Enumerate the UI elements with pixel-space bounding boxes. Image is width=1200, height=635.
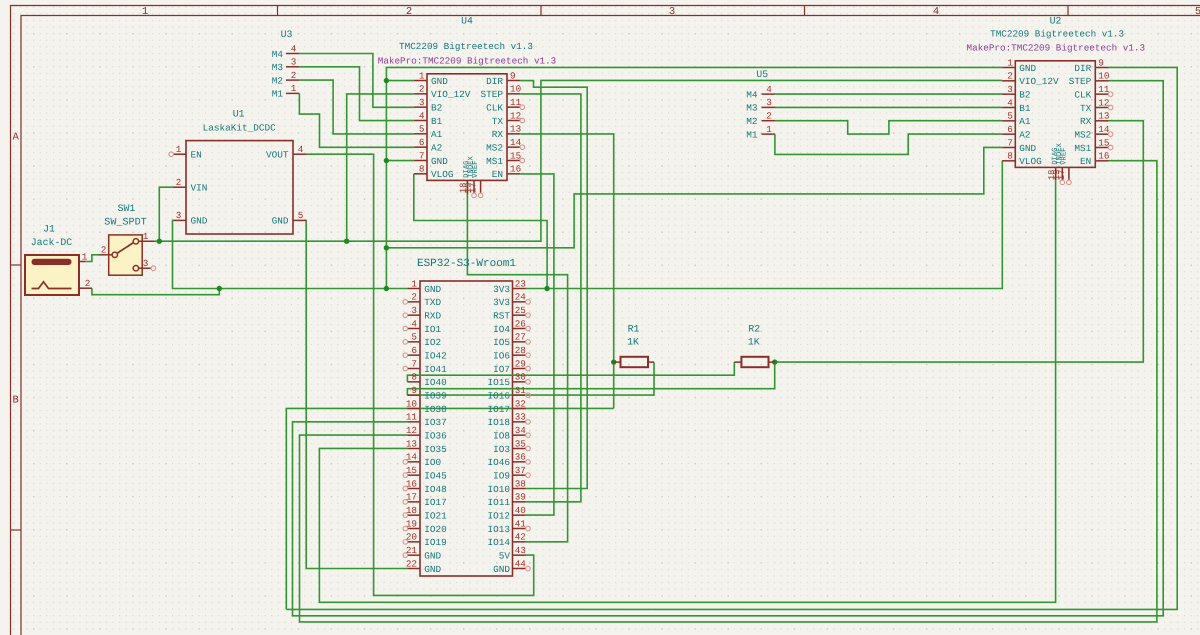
svg-text:LaskaKit_DCDC: LaskaKit_DCDC xyxy=(203,123,277,134)
ESP32 pin 8 IO40 xyxy=(407,381,420,383)
svg-text:U5: U5 xyxy=(756,69,768,80)
U2 pin 6 A2 xyxy=(1002,133,1015,135)
U2 pin 12 TX xyxy=(1095,106,1108,108)
ESP32 pin 3 open end xyxy=(403,313,408,318)
svg-text:VREF: VREF xyxy=(472,161,480,178)
svg-text:5: 5 xyxy=(298,210,304,221)
ESP32 pin 6 open end xyxy=(403,353,408,358)
svg-text:B: B xyxy=(13,395,19,407)
svg-text:U2: U2 xyxy=(1050,16,1062,27)
wire GND U1 pin5 to ESP32 pin22 xyxy=(306,220,407,568)
svg-text:MS1: MS1 xyxy=(1074,143,1091,154)
svg-text:13: 13 xyxy=(1098,111,1109,122)
regulator U1 LaskaKit_DCDC body xyxy=(186,141,293,234)
svg-text:GND: GND xyxy=(1019,143,1036,154)
svg-text:EN: EN xyxy=(1080,156,1091,167)
wire +12V rail SW1 to U2 VIO_12V xyxy=(155,80,1003,241)
wire U3 M4 to U4 B2 xyxy=(299,54,414,108)
svg-text:IO20: IO20 xyxy=(424,524,447,535)
svg-text:IO19: IO19 xyxy=(424,537,447,548)
U2 pin 19 INDEX xyxy=(1061,167,1063,180)
svg-text:M1: M1 xyxy=(272,89,284,100)
wire U4 EN to ESP32 IO12 xyxy=(520,174,554,515)
ESP32 pin 28 IO6 xyxy=(513,354,526,356)
svg-text:MakePro:TMC2209 Bigtreetech v1: MakePro:TMC2209 Bigtreetech v1.3 xyxy=(378,56,557,67)
svg-text:GND: GND xyxy=(191,216,208,227)
svg-text:M4: M4 xyxy=(746,89,758,100)
svg-text:12: 12 xyxy=(510,110,521,121)
U2 pin 17 open end xyxy=(1067,180,1072,185)
U5 pin 3 M3 xyxy=(762,106,775,108)
U4 pin 8 VLOG xyxy=(414,173,427,175)
U4 pin 6 A2 xyxy=(414,146,427,148)
U4 pin 15 open end xyxy=(520,158,525,163)
ESP32 pin 29 IO7 xyxy=(513,367,526,369)
SW1 pin 2 xyxy=(99,254,112,256)
ESP32 pin 42 IO14 xyxy=(513,541,526,543)
svg-text:CLK: CLK xyxy=(486,102,503,113)
svg-text:VIN: VIN xyxy=(191,183,208,194)
ESP32 pin 26 IO4 xyxy=(513,327,526,329)
ESP32 pin 22 GND xyxy=(407,567,420,569)
svg-text:VREF: VREF xyxy=(1061,148,1069,165)
svg-text:M2: M2 xyxy=(746,116,757,127)
U2 pin 8 VLOG xyxy=(1002,160,1015,162)
svg-text:VLOG: VLOG xyxy=(431,169,454,180)
svg-text:IO1: IO1 xyxy=(424,324,441,335)
ESP32 pin 44 open end xyxy=(526,566,531,571)
svg-text:1K: 1K xyxy=(627,337,639,348)
connector J1 Jack-DC body xyxy=(25,255,79,295)
svg-text:U4: U4 xyxy=(461,16,473,27)
svg-text:IO6: IO6 xyxy=(493,350,510,361)
svg-text:23: 23 xyxy=(515,278,526,289)
svg-text:GND: GND xyxy=(1019,63,1036,74)
svg-text:IO12: IO12 xyxy=(487,510,510,521)
svg-text:34: 34 xyxy=(515,425,527,436)
wire J1 pin1 to SW1 pin2 xyxy=(86,255,100,262)
svg-text:U1: U1 xyxy=(233,109,245,120)
svg-text:M3: M3 xyxy=(272,62,284,73)
ESP32 pin 36 IO46 xyxy=(513,461,526,463)
U4 pin 7 GND xyxy=(414,159,427,161)
U2 pin 1 GND xyxy=(1002,67,1015,69)
svg-text:IO10: IO10 xyxy=(487,484,510,495)
svg-text:GND: GND xyxy=(424,550,441,561)
ESP32 pin 18 IO21 xyxy=(407,514,420,516)
svg-text:IO42: IO42 xyxy=(424,350,447,361)
svg-text:7: 7 xyxy=(411,358,417,369)
svg-text:U3: U3 xyxy=(281,29,293,40)
svg-text:IO16: IO16 xyxy=(487,390,510,401)
U2 pin 3 B2 xyxy=(1002,93,1015,95)
svg-text:Jack-DC: Jack-DC xyxy=(31,237,73,248)
wire 5V U1 VOUT to ESP32 pin43 xyxy=(307,154,534,595)
U4 pin 14 MS2 xyxy=(507,146,520,148)
junction +12V branch to U4 xyxy=(344,239,349,244)
svg-text:R2: R2 xyxy=(748,324,760,335)
ESP32 pin 5 IO2 xyxy=(407,341,420,343)
svg-text:3: 3 xyxy=(143,258,149,269)
svg-text:42: 42 xyxy=(515,532,526,543)
wire GND vertical to top bus and U2 pin1 xyxy=(386,67,1002,288)
U4 pin 12 TX xyxy=(507,119,520,121)
U3 pin 2 M2 xyxy=(286,79,299,81)
svg-text:B2: B2 xyxy=(1019,89,1030,100)
U4 pin 10 STEP xyxy=(507,93,520,95)
svg-text:27: 27 xyxy=(515,332,526,343)
svg-text:9: 9 xyxy=(1098,57,1104,68)
ESP32 pin 26 open end xyxy=(526,326,531,331)
ESP32 pin 27 open end xyxy=(526,340,531,345)
svg-text:1: 1 xyxy=(411,278,417,289)
svg-text:3V3: 3V3 xyxy=(493,297,510,308)
ESP32 pin 43 5V xyxy=(513,554,526,556)
U2 pin 11 CLK xyxy=(1095,93,1108,95)
resistor R2 body xyxy=(741,357,768,367)
svg-text:2: 2 xyxy=(766,111,772,122)
ESP32 pin 10 IO38 xyxy=(407,407,420,409)
svg-text:10: 10 xyxy=(510,84,521,95)
junction GND east branch xyxy=(384,245,389,250)
ESP32 pin 37 IO9 xyxy=(513,474,526,476)
ESP32 pin 15 IO45 xyxy=(407,474,420,476)
svg-text:4: 4 xyxy=(411,318,417,329)
ESP32 pin 2 open end xyxy=(403,300,408,305)
U5 pin 2 M2 xyxy=(762,120,775,122)
ESP32 pin 4 IO1 xyxy=(407,327,420,329)
junction GND row xyxy=(384,286,389,291)
svg-text:R1: R1 xyxy=(628,324,640,335)
junction GND at J1 branch xyxy=(217,286,222,291)
wire R2 right to U2 RX xyxy=(775,121,1144,362)
svg-text:3: 3 xyxy=(411,305,417,316)
U4 pin 2 VIO_12V xyxy=(414,93,427,95)
svg-text:ESP32-S3-Wroom1: ESP32-S3-Wroom1 xyxy=(417,258,516,270)
ESP32 pin 31 IO16 xyxy=(513,394,526,396)
U1 pin 1 open end xyxy=(169,152,174,157)
U4 pin 16 EN xyxy=(507,173,520,175)
wire R1 right to ESP32 IO39 row xyxy=(407,362,654,395)
svg-text:2: 2 xyxy=(411,292,417,303)
svg-text:M3: M3 xyxy=(746,103,758,114)
svg-text:38: 38 xyxy=(515,478,526,489)
svg-text:22: 22 xyxy=(406,558,417,569)
wire ESP32 IO35 to U2 DIAG xyxy=(319,181,1055,603)
wire UART row through ESP32 IO38/IO17 xyxy=(286,408,613,609)
U2 pin 19 open end xyxy=(1060,180,1065,185)
svg-text:4: 4 xyxy=(419,110,425,121)
ESP32 pin 38 IO10 xyxy=(513,487,526,489)
svg-text:1: 1 xyxy=(82,251,88,262)
U4 pin 15 MS1 xyxy=(507,159,520,161)
U1 pin 3 GND xyxy=(174,219,187,221)
svg-text:MS2: MS2 xyxy=(486,142,503,153)
U2 pin 14 MS2 xyxy=(1095,133,1108,135)
U4 pin 9 DIR xyxy=(507,80,520,82)
svg-text:37: 37 xyxy=(515,465,526,476)
svg-text:IO17: IO17 xyxy=(424,497,447,508)
svg-text:8: 8 xyxy=(1007,151,1013,162)
ESP32 pin 1 GND xyxy=(407,288,420,290)
svg-text:IO9: IO9 xyxy=(493,470,510,481)
wire 3V3 row ESP32 pin23 to U2 VLOG xyxy=(526,161,1002,289)
svg-text:RXD: RXD xyxy=(424,310,441,321)
ESP32 pin 20 IO19 xyxy=(407,541,420,543)
wire U5 M4 to U2 B2 xyxy=(775,93,1002,95)
svg-text:5V: 5V xyxy=(499,550,511,561)
svg-text:11: 11 xyxy=(406,412,418,423)
svg-text:A2: A2 xyxy=(1019,129,1030,140)
U2 pin 10 STEP xyxy=(1095,80,1108,82)
U4 pin 1 GND xyxy=(414,80,427,82)
ESP32 pin 24 3V3 xyxy=(513,301,526,303)
ESP32 pin 11 IO37 xyxy=(407,421,420,423)
svg-text:3: 3 xyxy=(419,97,425,108)
ESP32 pin 5 open end xyxy=(403,340,408,345)
svg-text:IO38: IO38 xyxy=(424,404,447,415)
svg-text:M2: M2 xyxy=(272,75,283,86)
svg-text:1K: 1K xyxy=(748,337,760,348)
U2 pin 11 open end xyxy=(1108,92,1113,97)
svg-text:4: 4 xyxy=(1007,97,1013,108)
U4 pin 4 B1 xyxy=(414,119,427,121)
ESP32 pin 2 TXD xyxy=(407,301,420,303)
svg-text:35: 35 xyxy=(515,438,526,449)
svg-text:3: 3 xyxy=(669,6,675,18)
module ESP32-S3-Wroom1 body xyxy=(420,281,513,576)
wire GND tap U4 pin7 xyxy=(386,160,413,162)
svg-text:IO45: IO45 xyxy=(424,470,447,481)
svg-text:1: 1 xyxy=(1007,57,1013,68)
wire GND row U1 GND3 to ESP32 pin1 xyxy=(173,220,408,288)
SW1 pin 3 xyxy=(139,267,152,269)
svg-text:2: 2 xyxy=(291,70,297,81)
svg-text:RST: RST xyxy=(493,310,510,321)
U2 pin 15 MS1 xyxy=(1095,146,1108,148)
svg-text:A2: A2 xyxy=(431,142,442,153)
ESP32 pin 13 IO35 xyxy=(407,447,420,449)
svg-text:A1: A1 xyxy=(431,129,443,140)
svg-text:13: 13 xyxy=(406,438,417,449)
svg-text:8: 8 xyxy=(419,164,425,175)
ESP32 pin 35 open end xyxy=(526,446,531,451)
svg-text:4: 4 xyxy=(291,43,297,54)
ESP32 pin 25 open end xyxy=(526,313,531,318)
svg-text:TX: TX xyxy=(492,116,504,127)
junction GND at U4 pin7 xyxy=(384,158,389,163)
junction +12V at SW1 xyxy=(157,239,162,244)
svg-text:12: 12 xyxy=(1098,97,1109,108)
U2 pin 16 EN xyxy=(1095,160,1108,162)
ESP32 pin 14 open end xyxy=(403,460,408,465)
svg-text:GND: GND xyxy=(493,564,510,575)
ESP32 pin 24 open end xyxy=(526,300,531,305)
U2 pin 17 VREF xyxy=(1068,167,1070,180)
U1 pin 4 VOUT xyxy=(293,153,307,155)
ESP32 pin 41 open end xyxy=(526,526,531,531)
U4 pin 17 open end xyxy=(478,193,483,198)
svg-text:IO41: IO41 xyxy=(424,364,447,375)
ESP32 pin 23 3V3 xyxy=(513,288,526,290)
svg-text:5: 5 xyxy=(419,124,425,135)
svg-text:15: 15 xyxy=(1098,137,1109,148)
ESP32 pin 15 open end xyxy=(403,473,408,478)
wire VIN from SW1 junction to U1 VIN xyxy=(159,187,173,241)
svg-text:EN: EN xyxy=(492,169,503,180)
svg-text:MS1: MS1 xyxy=(486,156,503,167)
U4 pin 19 open end xyxy=(472,193,477,198)
ESP32 pin 6 IO42 xyxy=(407,354,420,356)
svg-text:28: 28 xyxy=(515,345,526,356)
svg-text:39: 39 xyxy=(515,492,526,503)
SW1 pin 3 open end xyxy=(151,266,156,271)
svg-text:TMC2209 Bigtreetech v1.3: TMC2209 Bigtreetech v1.3 xyxy=(399,41,533,52)
wire U4 DIR to ESP32 IO10 xyxy=(520,81,587,489)
U5 pin 1 M1 xyxy=(762,133,775,135)
svg-text:2: 2 xyxy=(101,245,107,256)
svg-text:1: 1 xyxy=(176,144,182,155)
ESP32 pin 36 open end xyxy=(526,460,531,465)
U2 pin 13 RX xyxy=(1095,120,1108,122)
svg-text:1: 1 xyxy=(419,70,425,81)
ESP32 pin 30 open end xyxy=(526,380,531,385)
svg-text:12: 12 xyxy=(406,425,417,436)
ESP32 pin 18 open end xyxy=(403,513,408,518)
svg-text:IO2: IO2 xyxy=(424,337,441,348)
ESP32 pin 41 IO13 xyxy=(513,527,526,529)
U1 pin 5 GND xyxy=(293,219,307,221)
svg-text:SW_SPDT: SW_SPDT xyxy=(104,218,146,229)
svg-text:TXD: TXD xyxy=(424,297,441,308)
junction 3V3 at ESP32 pin23 xyxy=(544,286,549,291)
svg-text:M1: M1 xyxy=(746,129,758,140)
wire GND from J1 pin2 xyxy=(92,288,219,295)
svg-text:STEP: STEP xyxy=(1069,76,1092,87)
svg-text:VOUT: VOUT xyxy=(266,150,289,161)
ESP32 pin 33 IO18 xyxy=(513,421,526,423)
U1 pin 1 EN xyxy=(174,153,187,155)
svg-text:IO14: IO14 xyxy=(487,537,510,548)
wire GND tap U4 pin1 xyxy=(386,80,413,82)
ESP32 pin 21 GND xyxy=(407,554,420,556)
svg-text:A: A xyxy=(13,132,20,144)
ESP32 pin 39 IO11 xyxy=(513,501,526,503)
U5 pin 4 M4 xyxy=(762,93,775,95)
ESP32 pin 25 RST xyxy=(513,314,526,316)
svg-text:A1: A1 xyxy=(1019,116,1031,127)
svg-text:TX: TX xyxy=(1080,103,1092,114)
svg-text:31: 31 xyxy=(515,385,527,396)
ESP32 pin 21 open end xyxy=(403,553,408,558)
ESP32 pin 17 open end xyxy=(403,500,408,505)
svg-text:3: 3 xyxy=(176,210,182,221)
ESP32 pin 3 RXD xyxy=(407,314,420,316)
svg-text:IO48: IO48 xyxy=(424,484,447,495)
svg-text:VIO_12V: VIO_12V xyxy=(1019,76,1059,87)
ESP32 pin 4 open end xyxy=(403,326,408,331)
svg-text:DIR: DIR xyxy=(1074,63,1091,74)
ESP32 pin 16 open end xyxy=(403,486,408,491)
U2 pin 5 A1 xyxy=(1002,120,1015,122)
U3 pin 1 M1 xyxy=(286,92,299,94)
svg-text:33: 33 xyxy=(515,412,526,423)
ESP32 pin 33 open end xyxy=(526,420,531,425)
svg-text:IO4: IO4 xyxy=(493,324,510,335)
svg-text:SW1: SW1 xyxy=(118,203,136,214)
svg-text:B1: B1 xyxy=(431,116,443,127)
svg-text:IO0: IO0 xyxy=(424,457,441,468)
svg-text:IO46: IO46 xyxy=(487,457,510,468)
svg-text:24: 24 xyxy=(515,292,527,303)
U4 pin 13 RX xyxy=(507,133,520,135)
ESP32 pin 30 IO15 xyxy=(513,381,526,383)
svg-text:8: 8 xyxy=(411,372,417,383)
wire U3 M2 to U4 A1 xyxy=(299,80,414,134)
ESP32 pin 34 IO8 xyxy=(513,434,526,436)
U4 pin 11 open end xyxy=(520,105,525,110)
svg-text:5: 5 xyxy=(1195,6,1200,18)
svg-text:9: 9 xyxy=(411,385,417,396)
svg-text:2: 2 xyxy=(419,84,425,95)
U2 pin 2 VIO_12V xyxy=(1002,80,1015,82)
U4 pin 19 INDEX xyxy=(473,180,475,193)
svg-text:GND: GND xyxy=(431,156,448,167)
ESP32 pin 29 open end xyxy=(526,366,531,371)
svg-text:5: 5 xyxy=(1007,111,1013,122)
wire +12V branch to U4 VIO_12V xyxy=(347,94,414,241)
svg-text:DIR: DIR xyxy=(486,76,503,87)
svg-text:36: 36 xyxy=(515,452,526,463)
ESP32 pin 19 open end xyxy=(403,526,408,531)
junction UART at R1 xyxy=(611,359,616,364)
svg-text:IO13: IO13 xyxy=(487,524,510,535)
svg-text:B2: B2 xyxy=(431,102,442,113)
wire GND east jog to U2 pin7 xyxy=(386,147,1002,247)
svg-text:VLOG: VLOG xyxy=(1019,156,1042,167)
svg-text:B1: B1 xyxy=(1019,103,1031,114)
svg-text:32: 32 xyxy=(515,398,526,409)
svg-text:IO11: IO11 xyxy=(487,497,510,508)
ESP32 pin 27 IO5 xyxy=(513,341,526,343)
switch SW1 SW_SPDT body xyxy=(109,235,143,275)
svg-text:3: 3 xyxy=(766,97,772,108)
ESP32 pin 34 open end xyxy=(526,433,531,438)
U3 pin 4 M4 xyxy=(286,53,299,55)
wire U5 M2 to U2 A1 xyxy=(775,121,1002,134)
wire ESP32 IO37 to U2 STEP xyxy=(293,81,1164,616)
svg-text:MS2: MS2 xyxy=(1074,129,1091,140)
resistor R1 body xyxy=(621,357,649,367)
wire ESP32 IO36 to U2 EN xyxy=(300,161,1157,622)
junction UART2 at R2 xyxy=(772,359,777,364)
stepper driver U2 body xyxy=(1015,61,1095,168)
svg-text:GND: GND xyxy=(431,76,448,87)
svg-text:15: 15 xyxy=(510,150,521,161)
R1 leads xyxy=(614,361,621,363)
svg-text:IO18: IO18 xyxy=(487,417,510,428)
U1 pin 2 VIN xyxy=(173,186,186,188)
U2 pin 18 DIAG xyxy=(1055,167,1057,180)
U4 pin 14 open end xyxy=(520,145,525,150)
wire VLOG U4 pin8 to 3V3 net xyxy=(414,174,547,289)
svg-text:J1: J1 xyxy=(43,224,55,235)
ESP32 pin 19 IO20 xyxy=(407,527,420,529)
ESP32 pin 44 GND xyxy=(513,567,526,569)
svg-text:43: 43 xyxy=(515,545,526,556)
U2 pin 15 open end xyxy=(1108,145,1113,150)
svg-text:M4: M4 xyxy=(272,49,284,60)
